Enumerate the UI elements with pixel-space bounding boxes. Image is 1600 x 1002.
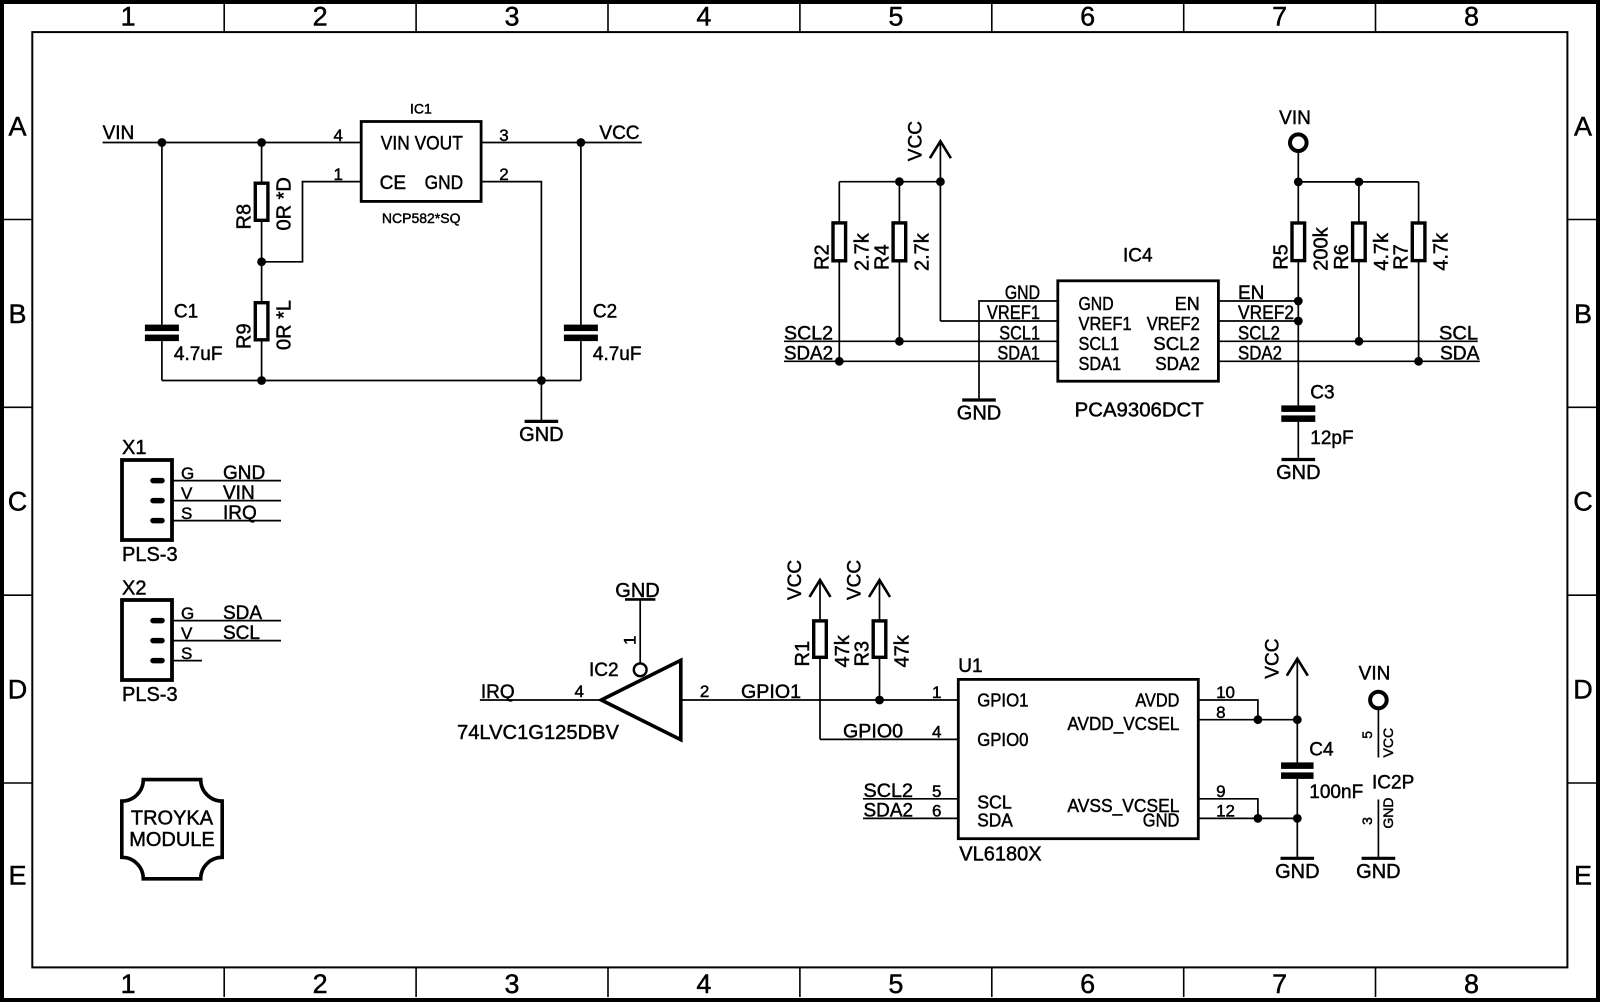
ground (1356, 857, 1400, 883)
svg-text:EN: EN (1238, 283, 1264, 304)
ground (519, 381, 563, 446)
svg-text:VIN: VIN (1359, 664, 1391, 685)
junction (257, 138, 266, 147)
junction (1293, 814, 1302, 823)
svg-text:VIN: VIN (103, 123, 135, 144)
svg-text:VREF2: VREF2 (1238, 303, 1294, 324)
svg-text:VREF1: VREF1 (987, 303, 1040, 324)
junction (875, 696, 884, 705)
svg-text:X2: X2 (122, 578, 146, 600)
svg-text:VREF1: VREF1 (1079, 314, 1132, 334)
IC IC4 PCA9306DCT (1058, 246, 1219, 422)
svg-text:5: 5 (932, 782, 941, 801)
svg-text:NCP582*SQ: NCP582*SQ (382, 210, 461, 226)
resistor R3 (852, 620, 914, 700)
junction (537, 376, 546, 385)
svg-text:VCC: VCC (785, 560, 806, 600)
svg-text:C: C (1573, 487, 1593, 517)
svg-text:R3: R3 (852, 641, 874, 667)
svg-text:12pF: 12pF (1310, 428, 1353, 449)
svg-text:5: 5 (888, 2, 903, 32)
svg-text:S: S (181, 644, 192, 663)
svg-text:IRQ: IRQ (223, 503, 257, 524)
wire VREF1 (940, 320, 1057, 322)
wire X1 G (172, 480, 281, 482)
junction (577, 138, 586, 147)
svg-text:VCC: VCC (599, 123, 639, 144)
svg-text:G: G (181, 604, 194, 623)
svg-text:4: 4 (575, 682, 584, 701)
svg-text:CE: CE (380, 173, 406, 194)
wire VIN rail (103, 142, 362, 144)
svg-text:SDA1: SDA1 (1079, 354, 1122, 374)
svg-text:C: C (8, 487, 28, 517)
svg-text:SCL2: SCL2 (864, 781, 914, 802)
svg-text:SDA2: SDA2 (864, 800, 914, 821)
svg-text:SCL1: SCL1 (1079, 334, 1120, 354)
wire VCC rail (839, 181, 940, 183)
svg-text:U1: U1 (958, 656, 982, 677)
svg-text:VIN: VIN (1279, 108, 1311, 129)
svg-text:4: 4 (696, 2, 711, 32)
junction (1294, 178, 1303, 187)
wire X1 V (172, 500, 281, 502)
supply VCC (905, 121, 951, 321)
svg-text:SDA: SDA (977, 810, 1013, 830)
wire GPIO0 net (820, 738, 958, 740)
supply VCC (785, 560, 831, 620)
wire X2 V (172, 640, 281, 642)
junction (158, 138, 167, 147)
junction (1254, 715, 1263, 724)
wire VREF2 to C3 (1297, 321, 1299, 405)
ground (957, 398, 1001, 424)
svg-text:0R *D: 0R *D (274, 177, 296, 230)
svg-text:PCA9306DCT: PCA9306DCT (1075, 399, 1204, 421)
svg-text:V: V (181, 484, 193, 503)
svg-text:6: 6 (1080, 2, 1095, 32)
svg-text:6: 6 (932, 802, 941, 821)
svg-text:SDA: SDA (1440, 343, 1480, 364)
junction (257, 376, 266, 385)
svg-text:VIN VOUT: VIN VOUT (381, 134, 463, 155)
svg-text:B: B (1574, 299, 1592, 329)
svg-text:C1: C1 (174, 302, 198, 323)
wire SDA2 to U1 (863, 817, 958, 819)
svg-text:SDA1: SDA1 (997, 343, 1040, 364)
svg-text:IC2: IC2 (589, 660, 619, 681)
svg-text:VREF2: VREF2 (1147, 314, 1200, 334)
svg-text:C3: C3 (1310, 382, 1334, 403)
wire VCC net (481, 142, 642, 144)
wire ground rail (162, 380, 581, 382)
junction (936, 177, 945, 186)
svg-text:X1: X1 (122, 437, 146, 459)
junction (1355, 178, 1364, 187)
wire pin 5 VCC (1377, 708, 1379, 757)
svg-text:SCL: SCL (1439, 323, 1478, 344)
supply VCC (1262, 639, 1308, 720)
svg-text:74LVC1G125DBV: 74LVC1G125DBV (457, 722, 620, 744)
wire VREF2 (1218, 320, 1298, 322)
wire X2 G (172, 620, 281, 622)
svg-text:200k: 200k (1310, 226, 1332, 270)
svg-text:2.7k: 2.7k (911, 232, 933, 271)
junction (835, 357, 844, 366)
junction (1293, 715, 1302, 724)
junction (895, 177, 904, 186)
wire GND pin 12 (1198, 817, 1297, 819)
junction (1355, 337, 1364, 346)
svg-text:4: 4 (696, 969, 711, 999)
svg-text:2: 2 (700, 682, 709, 701)
IC U1... IC1 NCP582*SQ regulator (361, 101, 481, 226)
IC U1 VL6180X (958, 656, 1198, 866)
capacitor C2 (564, 143, 642, 381)
wire X1 S (172, 520, 281, 522)
svg-text:R2: R2 (811, 244, 833, 270)
svg-text:V: V (181, 624, 193, 643)
svg-text:1: 1 (621, 636, 640, 645)
svg-text:GND: GND (1143, 810, 1180, 830)
svg-text:GND: GND (1005, 283, 1040, 304)
svg-text:VCC: VCC (905, 121, 926, 161)
connector X2 PLS-3 (122, 578, 178, 707)
svg-text:2: 2 (313, 969, 328, 999)
svg-text:IC2P: IC2P (1372, 772, 1414, 793)
resistor R4 (871, 182, 933, 342)
svg-text:R4: R4 (871, 244, 893, 270)
svg-text:GND: GND (1275, 861, 1319, 883)
svg-text:R8: R8 (234, 204, 256, 230)
svg-text:4.7uF: 4.7uF (174, 344, 223, 365)
svg-text:8: 8 (1464, 969, 1479, 999)
svg-text:GND: GND (1380, 797, 1396, 828)
svg-text:4: 4 (334, 126, 343, 145)
wire X2 S (172, 660, 202, 662)
resistor R7 (1391, 182, 1453, 361)
wire CE to R8/R9 node (262, 182, 362, 262)
svg-text:GND: GND (425, 173, 464, 194)
svg-text:C4: C4 (1309, 739, 1334, 760)
capacitor C3 (1281, 382, 1353, 458)
svg-text:SCL: SCL (223, 623, 260, 644)
buffer IC2 triangle (601, 660, 681, 739)
ground (1275, 818, 1319, 882)
svg-text:PLS-3: PLS-3 (122, 684, 178, 706)
svg-text:47k: 47k (892, 634, 914, 667)
resistor R6 (1331, 182, 1393, 341)
svg-text:GND: GND (519, 424, 563, 446)
wire IC1 GND pin (481, 182, 541, 381)
svg-text:TROYKA: TROYKA (131, 807, 214, 829)
svg-text:R1: R1 (792, 641, 814, 667)
power part IC2P (1359, 664, 1415, 859)
svg-text:3: 3 (504, 969, 519, 999)
svg-text:GPIO0: GPIO0 (977, 730, 1028, 750)
svg-text:IC4: IC4 (1123, 246, 1153, 267)
svg-text:7: 7 (1272, 969, 1287, 999)
svg-text:4.7uF: 4.7uF (593, 344, 642, 365)
resistor R9 (234, 262, 296, 381)
svg-text:D: D (8, 675, 28, 705)
resistor R8 (234, 143, 296, 262)
svg-text:GPIO1: GPIO1 (741, 682, 801, 703)
svg-text:MODULE: MODULE (129, 829, 215, 851)
svg-text:GPIO1: GPIO1 (977, 690, 1028, 710)
Troyka module badge (122, 780, 222, 879)
svg-text:4: 4 (932, 723, 941, 742)
svg-text:4.7k: 4.7k (1371, 232, 1393, 271)
svg-text:SCL2: SCL2 (784, 323, 833, 344)
wire AVDD_VCSEL pin 8 (1198, 719, 1297, 721)
svg-text:SDA2: SDA2 (1155, 354, 1200, 374)
svg-text:A: A (1574, 111, 1592, 141)
svg-text:AVDD_VCSEL: AVDD_VCSEL (1067, 714, 1179, 735)
wire IC4 GND pin (979, 301, 1058, 398)
svg-text:GND: GND (1276, 462, 1320, 484)
capacitor C1 (145, 143, 223, 381)
svg-text:VL6180X: VL6180X (959, 844, 1041, 866)
wire SDA1/SDA2 net (784, 360, 1058, 362)
wire VIN rail (1298, 181, 1418, 183)
svg-text:R9: R9 (234, 323, 256, 349)
connector X1 PLS-3 (122, 437, 178, 566)
svg-text:GND: GND (1356, 861, 1400, 883)
svg-text:R7: R7 (1391, 244, 1413, 270)
IC2 pin 1 bubble (634, 663, 647, 676)
svg-text:VCC: VCC (845, 560, 866, 600)
svg-text:EN: EN (1175, 294, 1200, 314)
wire GND to IC2 pin 1 (639, 599, 641, 663)
svg-text:SDA2: SDA2 (784, 343, 833, 364)
junction (1294, 317, 1303, 326)
svg-text:G: G (181, 464, 194, 483)
svg-text:1: 1 (121, 2, 136, 32)
svg-text:IRQ: IRQ (481, 682, 515, 703)
junction (1294, 297, 1303, 306)
svg-text:R6: R6 (1331, 244, 1353, 270)
VIN terminal (1370, 692, 1387, 709)
node GND label at IC2 pin 1 (615, 580, 659, 602)
svg-text:7: 7 (1272, 2, 1287, 32)
svg-text:1: 1 (334, 165, 343, 184)
wire VIN (1297, 151, 1299, 182)
svg-text:AVDD: AVDD (1135, 690, 1179, 710)
svg-text:GPIO0: GPIO0 (843, 721, 903, 742)
svg-text:GND: GND (957, 403, 1001, 425)
resistor R2 (811, 182, 873, 362)
svg-text:3: 3 (1359, 817, 1375, 825)
wire AVSS_VCSEL pin 9 (1198, 799, 1258, 819)
svg-text:S: S (181, 504, 192, 523)
wire pin 3 GND (1377, 800, 1379, 859)
svg-text:D: D (1573, 675, 1593, 705)
wire GPIO1 net (681, 699, 959, 701)
resistor R1 (792, 620, 854, 740)
wire AVDD pin 10 (1198, 700, 1258, 720)
svg-text:2.7k: 2.7k (851, 232, 873, 271)
svg-text:3: 3 (504, 2, 519, 32)
svg-text:6: 6 (1080, 969, 1095, 999)
ground (1276, 458, 1320, 484)
VIN terminal (1290, 134, 1307, 151)
svg-text:C2: C2 (593, 302, 617, 323)
svg-text:SDA: SDA (223, 603, 262, 624)
svg-text:GND: GND (223, 463, 265, 484)
svg-text:5: 5 (1359, 731, 1375, 739)
svg-text:1: 1 (121, 969, 136, 999)
wire SCL2 to U1 (863, 798, 958, 800)
wire SCL2 net right (1218, 340, 1477, 342)
junction (895, 337, 904, 346)
wire SCL1/SCL2 net (784, 340, 1058, 342)
junction (1254, 814, 1263, 823)
svg-text:VCC: VCC (1262, 639, 1283, 679)
svg-text:A: A (8, 111, 26, 141)
svg-text:100nF: 100nF (1309, 782, 1363, 803)
svg-text:GND: GND (1079, 294, 1114, 314)
svg-text:R5: R5 (1270, 244, 1292, 270)
svg-text:SDA2: SDA2 (1238, 343, 1282, 364)
svg-text:E: E (1574, 861, 1592, 891)
svg-text:SCL2: SCL2 (1238, 323, 1280, 344)
resistor R5 (1270, 182, 1332, 321)
wire IRQ (480, 699, 601, 701)
capacitor C4 (1281, 720, 1363, 819)
svg-text:VCC: VCC (1380, 728, 1396, 758)
svg-text:8: 8 (1464, 2, 1479, 32)
svg-text:4.7k: 4.7k (1431, 232, 1453, 271)
wire SDA2 net right (1218, 360, 1479, 362)
svg-text:SCL1: SCL1 (999, 323, 1040, 344)
svg-text:SCL2: SCL2 (1153, 334, 1200, 354)
svg-text:2: 2 (313, 2, 328, 32)
svg-text:B: B (8, 299, 26, 329)
svg-text:E: E (8, 861, 26, 891)
svg-text:PLS-3: PLS-3 (122, 544, 178, 566)
wire EN (1218, 300, 1298, 302)
svg-text:0R *L: 0R *L (274, 300, 296, 350)
svg-text:VIN: VIN (223, 483, 255, 504)
svg-text:1: 1 (932, 683, 941, 702)
svg-text:IC1: IC1 (410, 101, 432, 117)
junction (257, 257, 266, 266)
junction (1414, 357, 1423, 366)
svg-text:5: 5 (888, 969, 903, 999)
supply VCC (845, 560, 891, 620)
